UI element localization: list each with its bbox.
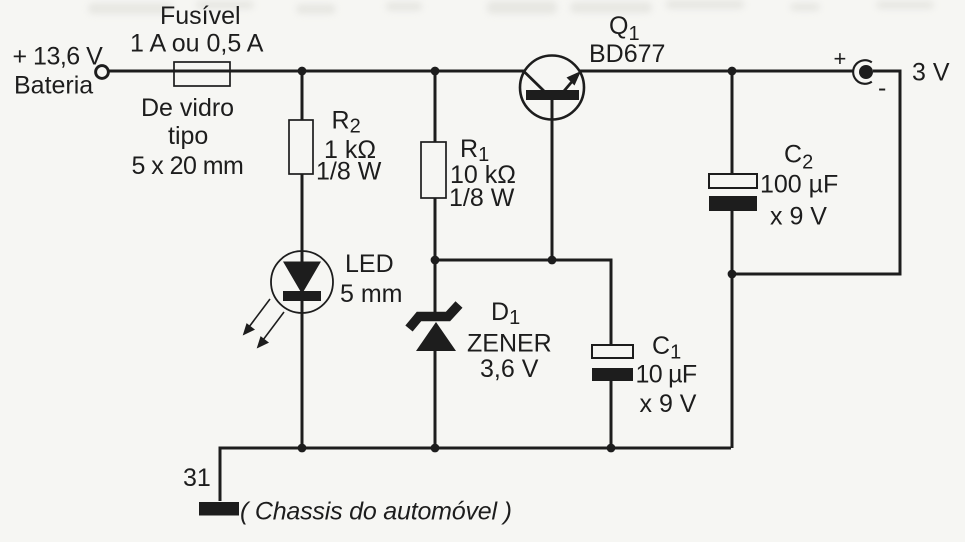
svg-text:10 µF: 10 µF [636, 361, 697, 389]
svg-text:1/8 W: 1/8 W [316, 158, 382, 186]
svg-text:tipo: tipo [168, 122, 208, 150]
svg-text:LED: LED [345, 250, 394, 278]
svg-text:Bateria: Bateria [14, 72, 93, 100]
svg-text:-: - [878, 74, 886, 102]
svg-text:+ 13,6 V: + 13,6 V [13, 43, 104, 71]
svg-text:5 x 20 mm: 5 x 20 mm [132, 152, 244, 180]
svg-text:1 A ou 0,5 A: 1 A ou 0,5 A [130, 30, 264, 58]
svg-text:1/8 W: 1/8 W [449, 184, 515, 212]
svg-text:5 mm: 5 mm [340, 280, 403, 308]
svg-text:x 9 V: x 9 V [640, 390, 697, 418]
svg-text:+: + [834, 46, 847, 71]
svg-text:De vidro: De vidro [141, 94, 234, 122]
svg-text:ZENER: ZENER [467, 330, 552, 358]
svg-text:Fusível: Fusível [160, 2, 241, 30]
svg-text:3 V: 3 V [912, 59, 950, 87]
svg-text:100 µF: 100 µF [760, 171, 838, 199]
svg-text:BD677: BD677 [589, 40, 665, 68]
svg-text:3,6 V: 3,6 V [480, 355, 539, 383]
svg-text:31: 31 [183, 464, 211, 492]
svg-text:( Chassis do automóvel ): ( Chassis do automóvel ) [240, 498, 512, 526]
svg-text:x 9 V: x 9 V [770, 203, 827, 231]
